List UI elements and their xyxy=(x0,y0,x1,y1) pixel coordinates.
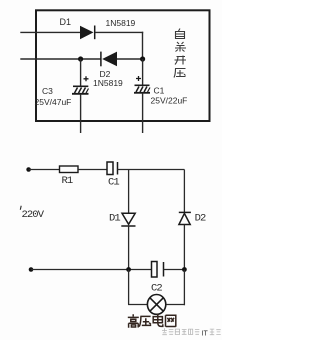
node junction dot row2/C1 branch xyxy=(140,56,145,61)
wire: lamp loop left horizontal xyxy=(128,304,147,306)
svg-text:C1: C1 xyxy=(108,177,119,189)
capacitor C1 (box plate + line plate) xyxy=(107,162,118,175)
wire: vertical from row1 corner down to row2 junction xyxy=(142,32,144,59)
terminal dot (220V live) xyxy=(26,167,31,172)
resistor R1 xyxy=(60,166,79,173)
压 xyxy=(174,69,186,78)
lamp (high-voltage grid load, circle with X) xyxy=(147,295,165,315)
wire: top rail left xyxy=(29,169,60,171)
svg-text:25V/47uF: 25V/47uF xyxy=(35,97,72,107)
vertical caption 自举升压 (hand-drawn glyphs) xyxy=(174,29,186,78)
wire: rail R1 to C1 xyxy=(78,169,107,171)
wire: left stub row1 xyxy=(20,31,80,33)
svg-text:1N5819: 1N5819 xyxy=(106,18,136,28)
svg-text:1N5819: 1N5819 xyxy=(93,78,123,88)
升 xyxy=(175,56,187,65)
wire: C3 branch vertical upper xyxy=(80,59,82,86)
wire: D2 branch lower xyxy=(183,225,185,270)
diode D1 (outline, pointing down) xyxy=(121,213,135,226)
glyph wang xyxy=(166,315,176,327)
watermark strip (gray source credit) xyxy=(162,328,199,334)
enclosure box (bootstrap boost section border) xyxy=(36,10,210,121)
svg-text:IT: IT xyxy=(202,330,209,337)
wire: left stub row2 xyxy=(20,58,101,60)
node junction dot D2/lower rail xyxy=(182,267,187,272)
capacitor C1 (top box, polarized, hatched plate) xyxy=(134,76,150,93)
capacitor C3 (polarized, hatched plate) xyxy=(72,76,89,94)
glyph dian xyxy=(153,314,163,327)
svg-text:220V: 220V xyxy=(22,209,45,221)
node junction dot row2/C3 xyxy=(78,56,83,61)
svg-text:D1: D1 xyxy=(109,212,120,224)
wire: C1 lead through box bottom xyxy=(142,93,144,133)
diode D2 (outline, pointing up) xyxy=(179,212,191,224)
wire: row2 from D2 to right junction xyxy=(117,58,143,60)
wire: D1 branch lower xyxy=(128,226,130,270)
caption 高压电网 (hand-drawn bold glyphs) xyxy=(128,314,176,328)
wire: lower rail xyxy=(31,269,152,271)
svg-text:C1: C1 xyxy=(154,86,165,96)
svg-text:C2: C2 xyxy=(151,282,162,294)
glyph gao xyxy=(128,314,139,327)
terminal dot (220V neutral) xyxy=(29,267,34,272)
label 220V source xyxy=(19,206,22,210)
wire: lower rail right of C2 xyxy=(164,269,185,271)
glyph ya xyxy=(139,316,151,326)
diode D2 (top box, filled, pointing left) xyxy=(101,52,117,67)
举 xyxy=(175,42,186,52)
svg-text:C3: C3 xyxy=(42,86,53,96)
svg-text:D2: D2 xyxy=(195,213,206,225)
diode D1 (top box, filled, pointing right) xyxy=(80,26,95,40)
wire: rail C1 to right corner xyxy=(118,169,185,171)
wire: C3 lead through box bottom xyxy=(80,94,82,133)
svg-text:D1: D1 xyxy=(60,17,72,27)
svg-text:R1: R1 xyxy=(62,175,73,187)
capacitor C2 (box plate + line plate) xyxy=(152,262,164,278)
wire: lamp loop right horizontal xyxy=(166,304,185,306)
wire: row1 from D1 to right corner xyxy=(95,31,144,33)
svg-text:25V/22uF: 25V/22uF xyxy=(151,96,188,106)
wire: D2 branch upper xyxy=(183,170,185,213)
wire: D1 branch upper xyxy=(128,170,130,214)
wire: C1 branch vertical upper xyxy=(142,59,144,85)
自 xyxy=(176,29,185,39)
wire: lamp loop right vertical xyxy=(183,270,185,306)
wire: lamp loop left vertical xyxy=(128,270,130,305)
node junction dot D1/lower rail xyxy=(126,267,131,272)
